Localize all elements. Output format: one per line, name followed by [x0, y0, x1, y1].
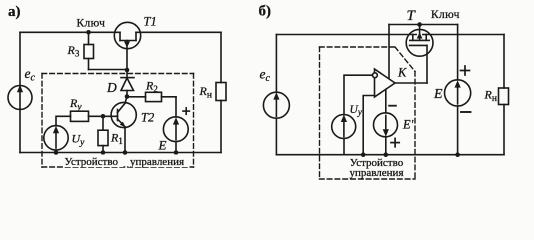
node: T2 base / Ry / R1 junction [101, 114, 106, 119]
label a) [8, 4, 21, 20]
node: T2 emitter bottom junction [123, 150, 128, 155]
svg-text:ec: ec [260, 67, 271, 85]
resistor Rn (a) [199, 83, 227, 101]
svg-text:D: D [106, 80, 117, 95]
dashed box: control unit (b) with chamfer [320, 47, 416, 179]
svg-text:Rн: Rн [484, 88, 497, 105]
wire: b right branch upper [503, 35, 505, 89]
label Kluch (b) [431, 9, 460, 21]
node: lower input bottom junction [361, 152, 366, 157]
wire: b bottom [276, 154, 504, 156]
source Uy (b) [332, 104, 362, 155]
wire: a left branch upper [19, 32, 21, 86]
wire: E branch down from upper rail [457, 25, 459, 80]
label b) [259, 3, 272, 19]
wire: b MOSFET to top-right [423, 34, 504, 36]
svg-text:управления: управления [349, 167, 403, 179]
wire: R3 bottom to T1 base node [89, 69, 128, 71]
svg-text:Uу: Uу [350, 104, 362, 117]
wire: node to R2 [127, 96, 146, 98]
wire: b left branch lower [275, 118, 277, 155]
node: Kluch tap junction (a) [86, 30, 91, 35]
node: R1 bottom junction [101, 150, 106, 155]
wire: R2 to E branch [162, 96, 177, 98]
svg-text:б): б) [259, 3, 272, 19]
svg-text:Ключ: Ключ [431, 9, 460, 21]
svg-text:R2: R2 [145, 79, 158, 95]
dashed box: control unit (a) [42, 74, 194, 168]
wire: b right branch lower [503, 105, 505, 155]
transistor T1 [114, 14, 156, 69]
transistor T2 [103, 97, 154, 128]
resistor Rn (b) [484, 88, 509, 105]
wire: lower input to bottom rail [363, 96, 374, 155]
node: Uy bottom junction [54, 150, 59, 155]
svg-text:R3: R3 [67, 43, 80, 59]
source e_c (b) [260, 67, 290, 119]
svg-text:T: T [407, 8, 417, 24]
svg-text:ec: ec [25, 66, 36, 84]
wire: a top-left segment [20, 31, 120, 33]
resistor R1 (a) [98, 116, 123, 152]
node: E' bottom junction [384, 152, 389, 157]
svg-text:T1: T1 [144, 14, 157, 28]
resistor R2 (a) [145, 79, 162, 102]
svg-text:Uу: Uу [72, 132, 86, 149]
wire: a right branch upper [220, 32, 222, 82]
label: control unit (a) [63, 155, 189, 168]
node: T1 base / R3 junction [125, 68, 130, 73]
source E (b) [433, 66, 471, 155]
wire: a left branch lower [19, 109, 21, 153]
resistor Ry (a) [69, 96, 103, 121]
svg-text:T2: T2 [141, 110, 154, 124]
svg-text:Ключ: Ключ [77, 17, 106, 29]
svg-text:Rн: Rн [199, 84, 212, 101]
node: E bottom junction [455, 152, 460, 157]
node: diode/T2 collector/R2 junction [125, 94, 130, 99]
node: T junction on upper rail [417, 22, 422, 27]
wire: b left branch upper [275, 35, 277, 93]
svg-text:E: E [433, 87, 443, 102]
op-amp comparator K [373, 65, 408, 97]
source E (a) [158, 108, 190, 153]
wire: T node upper rail [389, 24, 458, 26]
wire: inverting input to Uy [344, 75, 373, 115]
label: control unit (b) [349, 157, 403, 179]
wire: a top-right segment [136, 31, 221, 33]
svg-text:E: E [158, 137, 167, 152]
svg-text:E′: E′ [402, 117, 414, 131]
wire: a right branch lower [220, 101, 222, 153]
svg-text:K: K [397, 65, 407, 79]
svg-text:управления: управления [130, 156, 184, 168]
resistor R3 (a) [67, 32, 94, 69]
label Kluch (a) [77, 17, 106, 29]
wire: gate to comparator output [395, 82, 427, 84]
wire: a bottom [20, 152, 221, 154]
source E' (b) [374, 89, 414, 154]
svg-text:Rу: Rу [69, 96, 82, 113]
transistor T (MOSFET, b) [406, 8, 433, 83]
wire: T node to comparator top edge [388, 25, 390, 80]
wire: b top-left to MOSFET [276, 34, 416, 36]
diode D (a) [106, 70, 134, 97]
node: E bottom junction [174, 150, 179, 155]
svg-text:а): а) [8, 4, 21, 20]
svg-text:R1: R1 [110, 131, 123, 147]
wire: Uy top to Ry [56, 116, 71, 126]
svg-text:Устройство: Устройство [65, 156, 119, 168]
wire: T2 emitter down [124, 127, 126, 153]
source Uy (a) [44, 126, 85, 153]
source e_c (a) [8, 66, 36, 110]
